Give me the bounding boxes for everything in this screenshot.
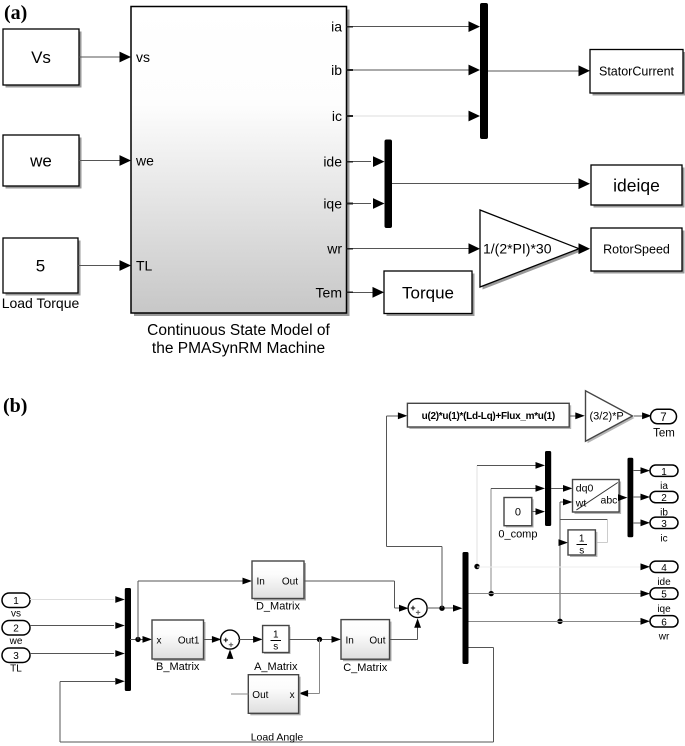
svg-text:RotorSpeed: RotorSpeed <box>603 243 670 257</box>
svg-text:dq0: dq0 <box>576 483 594 495</box>
svg-text:4: 4 <box>661 563 667 574</box>
svg-text:Tem: Tem <box>653 428 675 440</box>
svg-text:1: 1 <box>13 596 19 607</box>
outport 2 ib <box>650 491 678 518</box>
gain 1/(2*PI)*30 <box>480 210 582 290</box>
wire ide to mux2 <box>353 156 385 167</box>
wire into integrator 1/s <box>559 539 569 546</box>
arrow up into sum1 from Load Angle <box>227 649 234 659</box>
Fcn block u(2)*u(1)*(Ld-Lq)+Flux_m*u(1) <box>407 403 571 429</box>
mux abc currents <box>480 3 488 139</box>
svg-text:ia: ia <box>331 19 342 35</box>
output stubs on right edge <box>347 27 354 293</box>
wire mux to B_Matrix <box>130 636 152 643</box>
svg-text:ide: ide <box>657 577 671 588</box>
svg-text:x: x <box>157 636 162 647</box>
wire wt feed from integrator <box>557 499 607 624</box>
abc demux bar <box>628 458 634 538</box>
sum junction 1 <box>221 630 240 649</box>
scope block StatorCurrent <box>590 50 685 96</box>
svg-text:u(2)*u(1)*(Ld-Lq)+Flux_m*u(1): u(2)*u(1)*(Ld-Lq)+Flux_m*u(1) <box>422 411 555 422</box>
svg-text:the PMASynRM Machine: the PMASynRM Machine <box>152 340 325 357</box>
wire inport1 to mux (faint) <box>30 596 125 603</box>
wire wr to gain <box>353 243 480 254</box>
wire dq mux to dq0 block <box>551 485 572 492</box>
wire B_Matrix to sum1 <box>204 636 222 643</box>
constant block 5 (Load Torque) <box>3 238 81 296</box>
scope block Torque <box>384 271 475 316</box>
svg-text:3: 3 <box>13 651 19 662</box>
svg-text:ia: ia <box>660 481 668 492</box>
svg-text:2: 2 <box>13 624 19 635</box>
integrator A_Matrix 1/s <box>254 626 298 674</box>
svg-text:we: we <box>135 153 154 169</box>
wire sum1 to A_Matrix <box>238 636 263 643</box>
svg-text:wt: wt <box>575 498 587 510</box>
svg-text:0: 0 <box>515 507 521 519</box>
wire state vector up to Fcn <box>387 412 442 608</box>
sum junction 2 <box>408 599 427 618</box>
junction node after sum2 <box>439 606 444 611</box>
svg-text:s: s <box>273 642 278 653</box>
wire ib to mux <box>353 65 480 76</box>
svg-text:5: 5 <box>661 590 667 601</box>
outport 5 iqe <box>650 588 678 615</box>
source block Vs <box>3 29 82 88</box>
inport 3 TL <box>2 648 30 675</box>
svg-text:Out: Out <box>282 577 298 588</box>
junction node before B_Matrix <box>135 637 140 642</box>
svg-text:we: we <box>29 152 52 171</box>
wire 0_comp to dq mux <box>532 508 545 515</box>
svg-text:StatorCurrent: StatorCurrent <box>599 65 675 79</box>
svg-text:iqe: iqe <box>323 196 342 212</box>
mux dq currents <box>385 140 393 229</box>
svg-text:7: 7 <box>660 412 666 424</box>
svg-text:In: In <box>346 636 354 647</box>
subsystem block Continuous State Model <box>131 7 350 317</box>
svg-text:Tem: Tem <box>316 284 342 300</box>
subsystem D_Matrix <box>252 561 306 613</box>
svg-text:1/(2*PI)*30: 1/(2*PI)*30 <box>483 241 552 257</box>
junction node after integrator <box>317 637 322 642</box>
wire iqe branch up to dq mux <box>489 485 546 596</box>
svg-text:wr: wr <box>658 632 670 643</box>
dq0 input mux <box>545 451 551 526</box>
svg-text:(3/2)*P: (3/2)*P <box>590 411 624 423</box>
wire A_Matrix to C_Matrix <box>289 636 341 643</box>
svg-text:Out1: Out1 <box>178 636 200 647</box>
wire gain to outport 7 <box>634 412 652 419</box>
scope block ideiqe <box>591 165 685 208</box>
scope block RotorSpeed <box>591 228 685 274</box>
wire sum2 to state demux <box>426 605 463 612</box>
wire demux to outport 1 <box>633 467 650 474</box>
svg-text:6: 6 <box>661 617 667 628</box>
svg-text:ib: ib <box>331 62 342 78</box>
svg-text:ideiqe: ideiqe <box>613 176 660 196</box>
svg-text:1: 1 <box>661 467 667 478</box>
svg-text:Out: Out <box>369 636 385 647</box>
outport 4 ide <box>650 561 678 588</box>
wire iqe to mux2 <box>353 198 385 209</box>
inport 1 vs <box>2 593 30 620</box>
svg-text:1: 1 <box>273 630 279 641</box>
wire Tem to Torque <box>353 287 384 298</box>
wire D_Matrix to sum2 <box>304 581 409 612</box>
gain (3/2)*P <box>586 391 635 443</box>
svg-text:vs: vs <box>136 49 150 65</box>
wire Vs to vs port <box>79 52 131 63</box>
svg-text:B_Matrix: B_Matrix <box>156 661 200 673</box>
outport 3 ic <box>650 517 678 544</box>
inport 2 we <box>2 621 30 648</box>
input mux <box>125 588 131 691</box>
constant block 0 (0_comp) <box>498 498 537 541</box>
wire 5 to TL port <box>78 260 131 271</box>
svg-text:1: 1 <box>579 534 585 545</box>
svg-text:we: we <box>9 636 23 647</box>
wire mux2 to ideiqe <box>392 178 590 189</box>
wire branch up to D_Matrix <box>138 578 252 640</box>
wire wr to outport 6 <box>469 618 651 625</box>
transform block dq0 to abc <box>573 480 622 515</box>
svg-text:Vs: Vs <box>31 48 51 67</box>
feedback wire theta to input mux <box>60 647 494 742</box>
svg-text:iqe: iqe <box>657 604 671 615</box>
wire Load Angle out stub <box>231 693 249 695</box>
wire C_Matrix to sum2 <box>390 618 422 640</box>
wire theta branch into Load Angle subsystem <box>299 639 320 696</box>
subsystem B_Matrix <box>152 620 206 673</box>
wire Fcn to gain (3/2)*P <box>569 412 585 419</box>
svg-text:5: 5 <box>36 257 45 276</box>
svg-text:Load Angle: Load Angle <box>251 732 304 744</box>
svg-text:2: 2 <box>661 493 667 504</box>
wire inport3 to mux <box>30 650 125 657</box>
integrator 1/s (angle) <box>568 530 597 557</box>
wire mux to StatorCurrent <box>488 65 590 76</box>
svg-text:x: x <box>290 690 295 701</box>
svg-text:C_Matrix: C_Matrix <box>343 662 388 674</box>
svg-text:A_Matrix: A_Matrix <box>254 661 298 673</box>
wire ia to mux <box>353 21 480 32</box>
wire dq0 block to abc demux <box>618 494 628 501</box>
svg-text:Continuous State Model of: Continuous State Model of <box>147 322 330 339</box>
svg-text:(b): (b) <box>3 395 27 417</box>
wire ide to outport 4 (faint) <box>477 563 650 570</box>
svg-text:ic: ic <box>660 533 667 544</box>
svg-text:0_comp: 0_comp <box>498 529 537 541</box>
svg-text:(a): (a) <box>4 2 27 24</box>
wire ic to mux (faint) <box>353 111 480 122</box>
svg-text:abc: abc <box>601 495 618 507</box>
svg-text:wr: wr <box>326 241 342 257</box>
svg-text:D_Matrix: D_Matrix <box>256 601 301 613</box>
wire iqe to outport 5 <box>469 590 651 597</box>
source block we <box>3 135 82 189</box>
svg-text:vs: vs <box>11 609 21 620</box>
svg-text:3: 3 <box>661 519 667 530</box>
svg-text:ide: ide <box>323 154 342 170</box>
outport 7 Tem <box>651 409 677 439</box>
svg-text:Load Torque: Load Torque <box>2 295 80 311</box>
wire demux to outport 2 <box>633 494 650 501</box>
svg-text:Out: Out <box>252 690 268 701</box>
wire inport2 to mux <box>30 622 125 629</box>
wire we to we port <box>79 155 131 166</box>
svg-text:TL: TL <box>10 664 22 675</box>
state demux bar <box>463 552 469 664</box>
svg-text:ic: ic <box>332 108 342 124</box>
svg-text:Torque: Torque <box>402 284 454 303</box>
subsystem Load Angle (Out block) <box>248 675 303 744</box>
svg-text:s: s <box>579 546 584 557</box>
outport 1 ia <box>650 465 678 492</box>
wire gain to RotorSpeed <box>579 243 591 254</box>
caption Continuous State Model of the PMASynRM Machine <box>147 322 330 357</box>
svg-text:TL: TL <box>136 258 153 274</box>
subsystem C_Matrix <box>341 620 392 674</box>
wire ide branch up to dq mux <box>474 462 545 569</box>
outport 6 wr <box>650 616 678 643</box>
svg-text:In: In <box>257 577 265 588</box>
wire demux to outport 3 <box>633 519 650 526</box>
